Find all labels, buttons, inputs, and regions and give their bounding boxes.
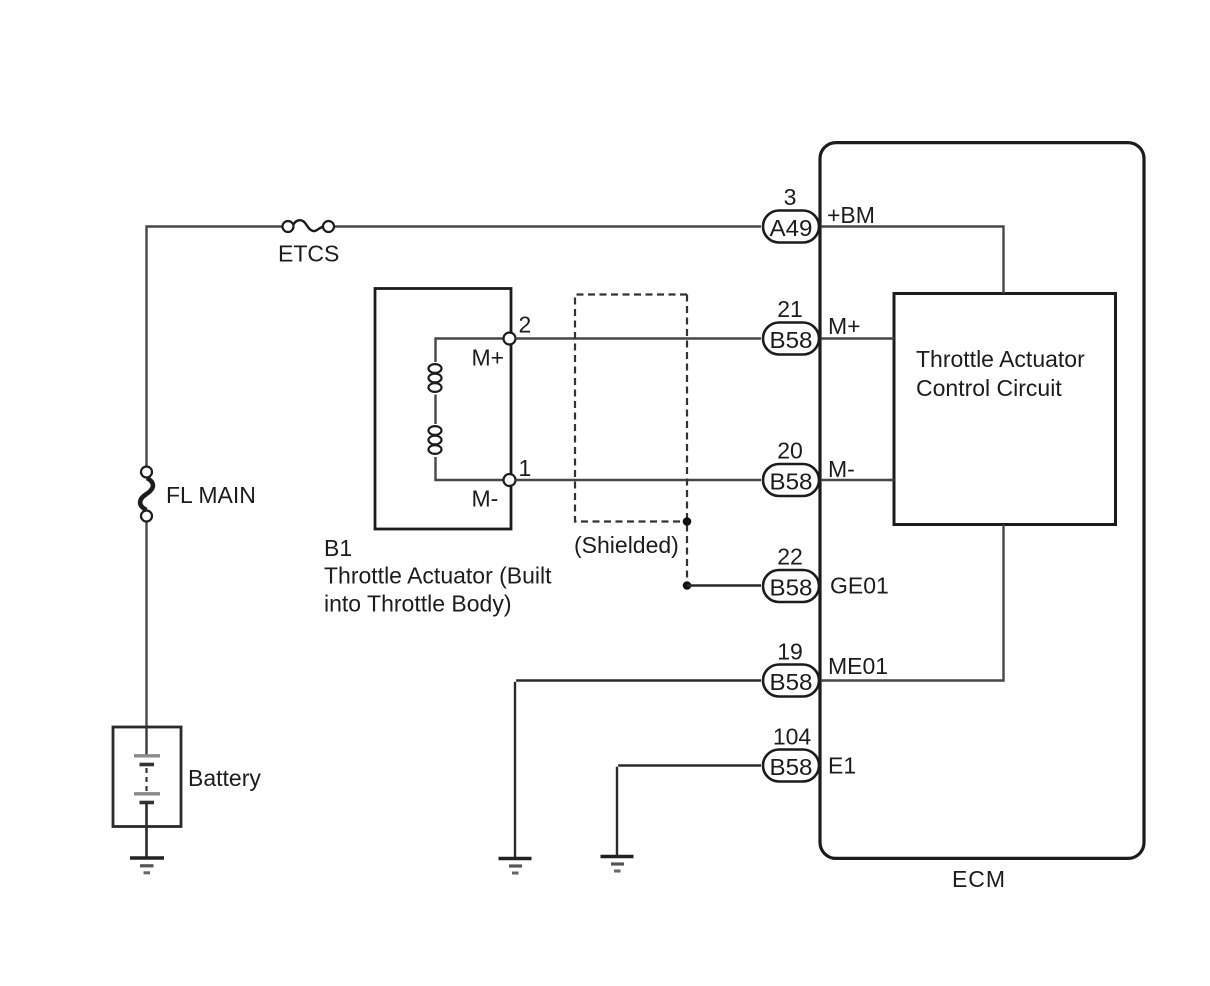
shield (dashed) around M+/M- wires: [575, 295, 687, 586]
connector B58 pin 21 (M+): [763, 323, 819, 355]
svg-text:(Shielded): (Shielded): [574, 532, 679, 558]
svg-text:into Throttle Body): into Throttle Body): [324, 591, 512, 617]
wire: actuator pin 1 to ECM M-: [516, 479, 762, 481]
ECM box U1: [820, 143, 1144, 859]
svg-text:Battery: Battery: [188, 765, 261, 791]
wire: coil to pins inside actuator: [434, 339, 503, 481]
svg-text:FL MAIN: FL MAIN: [166, 482, 256, 508]
svg-text:M+: M+: [828, 313, 861, 339]
svg-text:2: 2: [519, 312, 532, 338]
battery B: [113, 727, 181, 827]
wire: actuator pin 2 to ECM M+: [516, 337, 762, 339]
svg-text:GE01: GE01: [830, 573, 889, 599]
svg-text:104: 104: [773, 724, 812, 750]
svg-text:ECM: ECM: [952, 866, 1006, 892]
svg-text:1: 1: [519, 455, 532, 481]
connector B58 pin 19 (ME01): [763, 665, 819, 697]
fusible link FL MAIN: [140, 467, 153, 522]
wire: battery positive to ETCS fuse (left vertical + top horizontal): [145, 227, 761, 728]
pin 2 terminal of actuator: [504, 333, 516, 345]
wire: shield drain to GE01 connector: [687, 584, 761, 586]
svg-text:21: 21: [777, 296, 803, 322]
label Throttle Actuator Control Circuit: [916, 346, 1085, 401]
svg-text:M-: M-: [472, 486, 499, 512]
svg-text:B58: B58: [770, 575, 813, 601]
junction: shield corner node: [683, 517, 692, 526]
svg-text:3: 3: [784, 184, 797, 210]
connector B58 pin 22 (GE01): [763, 570, 819, 602]
svg-text:ME01: ME01: [828, 653, 888, 679]
svg-text:Throttle Actuator: Throttle Actuator: [916, 346, 1085, 372]
wire: M- oval to control circuit: [821, 479, 894, 481]
svg-text:19: 19: [777, 639, 803, 665]
wire: ME01 to ground: [515, 681, 761, 859]
svg-text:M+: M+: [472, 345, 505, 371]
wire: +BM to control circuit: [821, 227, 1004, 294]
svg-text:22: 22: [777, 544, 803, 570]
svg-text:B58: B58: [770, 469, 813, 495]
svg-text:B58: B58: [770, 669, 813, 695]
ground (ME01): [499, 859, 532, 874]
wire: battery negative to ground: [145, 803, 148, 859]
wire: control circuit to ME01: [821, 525, 1005, 681]
svg-text:A49: A49: [770, 215, 813, 241]
throttle actuator control circuit block: [894, 294, 1116, 525]
throttle actuator B1 box: [375, 289, 511, 530]
pin 1 terminal of actuator: [504, 474, 516, 486]
svg-text:ETCS: ETCS: [278, 241, 339, 267]
inductor coil lower (motor winding): [429, 426, 442, 454]
wire: M+ oval to control circuit: [821, 337, 894, 339]
connector B58 pin 20 (M-): [763, 464, 819, 496]
svg-text:M-: M-: [828, 456, 855, 482]
svg-text:B58: B58: [770, 327, 813, 353]
label B1 Throttle Actuator: [324, 535, 552, 617]
svg-text:B58: B58: [770, 754, 813, 780]
connector A49 pin 3 (+BM): [763, 211, 819, 243]
svg-text:+BM: +BM: [827, 202, 875, 228]
svg-text:Control Circuit: Control Circuit: [916, 375, 1062, 401]
inductor coil upper (motor winding): [429, 364, 442, 392]
junction: shield drain to GE01: [683, 581, 692, 590]
svg-text:B1: B1: [324, 535, 352, 561]
fuse ETCS: [283, 220, 335, 232]
ground (E1): [601, 857, 634, 872]
svg-text:E1: E1: [828, 753, 856, 779]
wire: E1 to ground: [617, 766, 761, 857]
svg-text:20: 20: [777, 438, 803, 464]
ground (battery): [130, 858, 164, 873]
connector B58 pin 104 (E1): [763, 750, 819, 782]
svg-text:Throttle Actuator (Built: Throttle Actuator (Built: [324, 563, 552, 589]
